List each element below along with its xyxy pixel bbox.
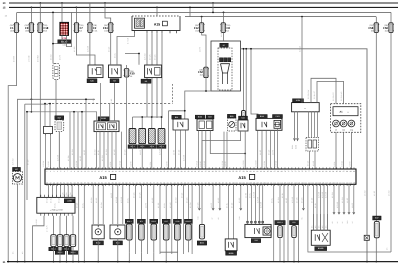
svg-text:F18: F18 [44, 26, 49, 30]
ECU pin ticks [46, 167, 355, 186]
module A15A box [292, 103, 320, 112]
wire line C [25, 103, 48, 105]
sensor B2 dashed pill [53, 64, 60, 80]
svg-text:A15B: A15B [67, 199, 72, 202]
svg-text:0.5 GE: 0.5 GE [76, 202, 79, 208]
svg-text:B13B: B13B [101, 117, 106, 120]
wire K6 out 1 [146, 78, 148, 117]
module B140 box [256, 118, 282, 130]
wire ECU bottom feed x52 [52, 184, 54, 197]
svg-text:B140: B140 [260, 115, 264, 118]
svg-text:0.5 BL: 0.5 BL [163, 203, 166, 208]
svg-text:0.5 BL: 0.5 BL [114, 53, 117, 58]
svg-text:0.5 GN: 0.5 GN [341, 160, 344, 166]
wire right column F58 down [375, 32, 377, 261]
wire pump M7 down [17, 184, 19, 262]
svg-text:0.5 BL: 0.5 BL [81, 203, 84, 208]
injector pill B16-1 [51, 235, 56, 247]
svg-text:K7: K7 [223, 44, 225, 47]
wire B343B pin 2 [316, 214, 318, 230]
svg-text:B36: B36 [175, 116, 178, 119]
injector pill B16-2 [57, 235, 62, 247]
wire right column F56 down [390, 32, 392, 252]
svg-text:F1: F1 [10, 26, 14, 30]
svg-text:0.75 BR: 0.75 BR [256, 196, 259, 203]
svg-text:0.75 BR: 0.75 BR [260, 201, 263, 208]
svg-text:0.5 SW: 0.5 SW [101, 155, 104, 161]
wire B64 ground [117, 239, 119, 262]
wire A15B to B16-2 [59, 216, 61, 235]
svg-text:0.5 GR: 0.5 GR [73, 46, 76, 52]
wire B16-3 to ground bus [66, 247, 68, 262]
junction on bus 15 at x157 [156, 7, 158, 9]
solenoid Y101 box [274, 120, 281, 128]
junction sub-feed x213 [212, 12, 214, 14]
glow plug Y62-2 label box [138, 145, 147, 149]
svg-text:2.5 SW: 2.5 SW [364, 190, 367, 196]
wire K75 to sensor B2 [53, 35, 62, 43]
wire bus to sensor B2 [52, 12, 54, 63]
relay K20 contacts [92, 68, 98, 74]
junction big loop B43 [243, 48, 245, 50]
svg-text:0.5 GN-RT: 0.5 GN-RT [332, 91, 335, 101]
wire ECU bottom feed x141 [140, 184, 142, 219]
wire bus3 to fuse F1 [16, 12, 18, 22]
junction ground x8 [7, 261, 9, 263]
svg-text:0.5 GE: 0.5 GE [199, 160, 202, 166]
svg-text:0.5 SW: 0.5 SW [331, 192, 334, 198]
svg-text:1.5 GN: 1.5 GN [27, 55, 30, 62]
svg-text:B71: B71 [140, 220, 143, 223]
wire B71 down [140, 240, 142, 252]
relay K9 box [109, 65, 122, 78]
wire bus30 tap to sub-feed [212, 3, 214, 12]
svg-text:0.5 SW: 0.5 SW [71, 149, 74, 155]
wire ECU bottom feed x64 [63, 184, 65, 197]
svg-text:2.5 SW: 2.5 SW [36, 55, 39, 62]
wire loop right of K75 [67, 12, 72, 46]
wire bus15 to fuse F9 [30, 7, 32, 22]
wire A15 pin drop 2 [151, 33, 153, 64]
wire A15 pin drop 4 [161, 33, 163, 118]
wire ECU bottom feed x135 [134, 184, 136, 254]
wire ECU top feed x142 [141, 144, 143, 169]
svg-text:B47: B47 [375, 217, 378, 220]
wire dashed tap b [49, 104, 51, 127]
relay K32 symbol [241, 123, 245, 128]
wire F52 down [205, 78, 207, 91]
svg-text:1.0 RT: 1.0 RT [198, 47, 201, 52]
svg-text:B50: B50 [230, 115, 233, 118]
svg-text:0.5 BL: 0.5 BL [271, 198, 274, 203]
sensor B47 label box [373, 216, 382, 220]
svg-text:1.0 RT: 1.0 RT [259, 150, 262, 155]
wire ECU top feed x180 [180, 131, 182, 170]
junction pump feed [85, 98, 87, 100]
svg-text:A15: A15 [238, 175, 246, 180]
wire B50 out 2 [226, 132, 228, 169]
injector pill B16-3 [64, 235, 69, 247]
wire line B drop [26, 112, 28, 200]
svg-text:0.5 WS: 0.5 WS [149, 54, 152, 60]
svg-text:A15A: A15A [296, 99, 301, 102]
wire ECU bottom feed x324 [323, 184, 325, 230]
wire B16-2 to ground bus [59, 247, 61, 262]
wire ECU bottom feed x251 [250, 184, 252, 224]
wire K9 pin2 [116, 44, 118, 65]
wire ECU bottom feed x160 [159, 184, 161, 254]
sensor B43 pill [242, 111, 246, 118]
junction right col2 ground [375, 261, 377, 263]
svg-text:B353-1: B353-1 [277, 221, 283, 224]
svg-text:0.5 GE: 0.5 GE [178, 149, 181, 155]
junction on bus 15 at x76 [76, 7, 78, 9]
module B343B box [311, 230, 330, 245]
fuse F9 label [25, 24, 29, 32]
fuse F18 [37, 23, 43, 33]
svg-text:1.0 RT: 1.0 RT [245, 193, 248, 198]
svg-text:0.5 BL: 0.5 BL [333, 162, 336, 167]
bus sub-feed from terminal 30 [17, 11, 391, 13]
wire A15A to cluster loop 1 [311, 78, 336, 103]
svg-text:0.5 SW-WS: 0.5 SW-WS [340, 91, 343, 101]
svg-text:1.5 SW: 1.5 SW [388, 190, 391, 196]
Y94 feed pads [247, 221, 249, 223]
fuse F52 label [198, 69, 203, 77]
module A15 pins [135, 31, 177, 34]
wire Y130 down [176, 240, 178, 252]
wire ECU bottom feed x220 [219, 184, 221, 210]
svg-text:F7: F7 [80, 26, 84, 30]
svg-text:0.5 BL: 0.5 BL [226, 203, 229, 208]
sensor B34-1 label box [125, 219, 133, 223]
junction on bus 30 at x62 [61, 2, 63, 4]
svg-text:B35B: B35B [229, 252, 234, 255]
svg-text:B27: B27 [58, 116, 61, 119]
wire end arrow x303 [302, 208, 304, 210]
wire ECU bottom feed x123 [122, 184, 124, 224]
wire end arrow x199 [198, 208, 200, 210]
wire ECU bottom feed x68 [67, 184, 69, 197]
svg-text:0.5 GE: 0.5 GE [95, 197, 98, 203]
wire ECU bottom feed x79 [78, 184, 80, 261]
wire ECU top feed x59 [58, 132, 60, 169]
wire A15 pin drop 1 [146, 33, 148, 64]
svg-text:0.75 BR: 0.75 BR [183, 154, 186, 161]
fuse F56 [388, 23, 394, 33]
svg-text:F12: F12 [194, 26, 199, 30]
module B166 box [197, 119, 213, 131]
junction B70 ground [293, 261, 295, 263]
wire A15B to B16-1 [53, 216, 55, 235]
junction pump h2 [184, 110, 186, 112]
wire ECU top feed x152 [151, 144, 153, 169]
wire ECU bottom feed x213 [212, 184, 214, 210]
module Y94 box [245, 224, 271, 237]
wire B50 out 1 [223, 132, 225, 169]
sensor B27 dashed pill [55, 120, 64, 132]
solenoid Y101 symbol [276, 122, 280, 126]
wire B166 join [210, 131, 245, 154]
svg-text:A15: A15 [99, 175, 107, 180]
module B13B box [94, 121, 119, 132]
wire B142 ground [97, 239, 99, 262]
wire B343B pin 4 [323, 214, 325, 230]
wire F30 up [126, 65, 128, 69]
injector B16-2 label box [55, 251, 64, 255]
sensor B343-1 label box [197, 241, 207, 245]
wire ECU top feed x122 [121, 132, 123, 169]
svg-text:K9: K9 [113, 80, 115, 83]
fuse F7 [74, 23, 80, 33]
svg-text:4-32: 4-32 [62, 44, 66, 47]
coil B64 box [110, 225, 125, 239]
svg-text:F56: F56 [383, 26, 388, 30]
svg-text:0.5 GE: 0.5 GE [180, 192, 183, 198]
wire big loop (terminal feed) [241, 49, 368, 262]
gauge lamp 2 [340, 120, 347, 127]
wire sub-feed to fuse F56 [390, 12, 392, 22]
wire A15 pin1 bundle [117, 33, 135, 44]
svg-text:B343: B343 [200, 242, 204, 245]
sensor B27 label box [55, 116, 64, 120]
junction K6 feed [138, 53, 140, 55]
wire B71 ground [140, 252, 142, 261]
junction on bus 30 at x105 [104, 2, 106, 4]
sensor B353-1 label box [275, 221, 286, 225]
coil B142 pin [97, 225, 99, 227]
wire bus15 to A15 region [156, 7, 158, 16]
sensor B71 label box [137, 219, 145, 223]
svg-text:K20: K20 [90, 80, 93, 83]
fuse F52 [203, 67, 209, 77]
svg-text:F58: F58 [368, 26, 373, 30]
svg-text:0.5 RT: 0.5 RT [59, 55, 62, 60]
sensor B47 pill [374, 221, 379, 237]
svg-text:0.5 BL: 0.5 BL [314, 203, 317, 208]
svg-text:0.5 BL: 0.5 BL [149, 162, 152, 167]
wire ECU top feed x202 [201, 131, 203, 170]
wire ECU bottom feed x288 [287, 184, 289, 261]
glow plug Y62-1 label box [128, 145, 137, 149]
wire dashed tap to B13B [109, 104, 111, 121]
wire ECU bottom feed x334 [333, 184, 335, 214]
wire big loop tap K32 pin2 [245, 49, 247, 120]
wire ECU top feed x104 [103, 132, 105, 169]
wire B343-2 down [187, 240, 189, 252]
pump M3 leads [222, 73, 224, 84]
svg-text:0.5 GE: 0.5 GE [217, 197, 220, 203]
pump M7 M glyph [16, 176, 19, 179]
wire ECU bottom feed x93 [92, 184, 94, 224]
svg-text:0.5 SW: 0.5 SW [50, 54, 53, 60]
svg-text:0.5 GN: 0.5 GN [185, 197, 188, 203]
ground bus 31 [7, 261, 398, 263]
fuse F56 label [383, 24, 388, 32]
wire ECU to F56 return [308, 184, 391, 252]
junction line C ground [24, 261, 26, 263]
fuse F34 label [103, 24, 108, 32]
svg-text:1.0 RT: 1.0 RT [351, 203, 354, 208]
sensor B34-1 pill [127, 224, 133, 240]
junction B16-3 ground [66, 261, 68, 263]
wire ECU bottom feed x192 [191, 184, 193, 254]
wire ECU top feed x199 [198, 131, 200, 170]
pump module K7 label box [220, 43, 229, 47]
wire pump M3 out [185, 91, 223, 119]
wire B34-2 down [153, 240, 155, 252]
bus sub-feed 2 [185, 16, 376, 18]
injector Y62-4 [158, 129, 165, 144]
sensor B70 label box [290, 221, 299, 225]
wire F2 to K20 [89, 32, 91, 65]
svg-text:0.5 SW: 0.5 SW [196, 161, 199, 167]
relay K6 label box [141, 79, 151, 83]
sensor B34-2 label box [150, 219, 158, 223]
wire sub-feed2 to fuse F12 [201, 17, 203, 23]
wire ECU bottom feed x241 [240, 184, 242, 210]
relay B36 symbol [178, 122, 183, 127]
wire bus30 to relay K75 [61, 3, 63, 22]
svg-text:0.5 GN-SW: 0.5 GN-SW [307, 90, 310, 99]
svg-text:Y101: Y101 [275, 115, 279, 118]
relay K6 box [145, 65, 162, 78]
sensor B50 dashed box [228, 118, 237, 131]
option dashed vertical [172, 84, 174, 104]
injector B16-1 label box [49, 247, 59, 251]
wire ECU bottom feed x320 [320, 184, 322, 230]
wire B34-2 ground [153, 252, 155, 261]
junction on sub-feed2 at x201 [201, 16, 203, 18]
wire to injector Y62-2 [141, 117, 143, 129]
svg-text:0.5 SW: 0.5 SW [189, 202, 192, 208]
svg-text:0.5 GN: 0.5 GN [67, 155, 70, 161]
wire A15A to sensor B18 3 [314, 112, 316, 138]
module A15 inner relay cells [136, 20, 139, 27]
pump M7 circle [13, 174, 21, 182]
wire ECU top feed x97 [96, 132, 98, 169]
pump M3 connector bars [220, 58, 231, 62]
wire ECU bottom feed x328 [327, 184, 329, 230]
module A15 inner relay [135, 18, 145, 28]
svg-text:0.75 BR: 0.75 BR [242, 160, 245, 167]
option dashed line [48, 103, 173, 105]
junction B166-K32 [244, 153, 246, 155]
svg-text:K6: K6 [145, 80, 147, 83]
cluster A1 dashed box [331, 104, 361, 133]
module B140 relay symbol [262, 122, 267, 127]
fuse F1 label [10, 24, 14, 32]
junction B64 ground [117, 261, 119, 263]
wire ECU top feed x108 [107, 132, 109, 169]
sensor B70 pill [292, 226, 297, 238]
fuse F30 label [130, 70, 135, 78]
svg-text:0.5 GE: 0.5 GE [306, 160, 309, 166]
svg-text:0.5 SW: 0.5 SW [75, 161, 78, 167]
svg-text:0.75 BR: 0.75 BR [255, 160, 258, 167]
svg-text:0.5 GE: 0.5 GE [267, 149, 270, 155]
wire F7 down [76, 32, 95, 65]
svg-text:B343B: B343B [318, 247, 324, 250]
svg-text:0.5 WS: 0.5 WS [296, 197, 299, 203]
svg-text:1.0 RT: 1.0 RT [139, 150, 142, 155]
wire ECU bottom feed x199 [198, 184, 200, 210]
wire K32 out to ECU [244, 131, 246, 169]
svg-text:Y94: Y94 [254, 239, 257, 242]
wire cluster down x344 [343, 132, 345, 169]
sensor Y117 label box [162, 219, 170, 223]
svg-text:B34-1: B34-1 [127, 220, 132, 223]
junction B16-2 ground [59, 261, 61, 263]
wire ECU top feed x206 [205, 131, 207, 170]
svg-text:0.75 BR: 0.75 BR [325, 191, 328, 198]
sensor B18 dashed box [306, 138, 319, 152]
fuse F8 label [227, 24, 231, 32]
sensor Y130 pill [175, 224, 181, 240]
svg-text:0.75 BR: 0.75 BR [336, 201, 339, 208]
relay K9 contacts [112, 68, 118, 74]
fuse F34 [108, 23, 114, 33]
fuse F7 label [80, 24, 84, 32]
svg-text:0.5 SW: 0.5 SW [174, 197, 177, 203]
pump M3 symbol [221, 64, 230, 73]
wire B16-1 to ground bus [53, 247, 55, 262]
sensor Y117 pill [163, 224, 169, 240]
sensor B50 label box [227, 114, 236, 118]
wire F12 jog to F52 [202, 32, 206, 67]
wire ECU bottom feed x177 [176, 184, 178, 219]
fuse F2 label [93, 24, 98, 32]
wire K9 to B13B [114, 83, 116, 121]
wire B18 out 1 [309, 151, 311, 169]
module Y94 label box [251, 239, 261, 243]
gauge lamp 1 icon [335, 122, 338, 125]
wire pump to ECU [168, 111, 170, 169]
wire ECU bottom feed x317 [316, 184, 318, 230]
wire ECU bottom feed x166 [165, 184, 167, 219]
wire B343B pin 3 [320, 214, 322, 230]
relay B36 label box [172, 115, 182, 119]
svg-text:0.5 GN: 0.5 GN [263, 160, 266, 166]
relay K20 box [88, 65, 103, 78]
svg-text:B34-2: B34-2 [151, 220, 156, 223]
svg-text:0.5 SW: 0.5 SW [94, 149, 97, 155]
svg-text:0.5 GR: 0.5 GR [27, 159, 30, 165]
svg-text:1.0 RT: 1.0 RT [173, 150, 176, 155]
svg-text:0.5 BL: 0.5 BL [126, 198, 129, 203]
svg-text:0.5 GN: 0.5 GN [196, 202, 199, 208]
wire sub-feed to fuse F8 [223, 12, 225, 22]
junction glow bracket [161, 116, 163, 118]
junction right col ground [366, 261, 368, 263]
glow plug Y62-4 label box [157, 145, 166, 149]
relay K32 label box [239, 116, 248, 120]
junction big loop K32 [250, 48, 252, 50]
svg-text:1.5: 1.5 [386, 248, 389, 250]
wire ECU bottom feed x344 [343, 184, 345, 214]
wire K6 out 2 [151, 78, 153, 117]
wire B16-4 to ground bus [72, 247, 74, 262]
wire ECU bottom feed x98 [97, 184, 99, 224]
svg-text:4 × 0.75: 4 × 0.75 [46, 225, 49, 232]
svg-text:0.5 WS: 0.5 WS [203, 160, 206, 166]
junction B16-4 ground [72, 261, 74, 263]
wire A15B left pin down [33, 216, 44, 262]
wire B34-1 ground [128, 252, 130, 261]
connector bar bottom [160, 251, 178, 253]
svg-text:0.5 GE: 0.5 GE [311, 197, 314, 203]
wire Y117 down [165, 240, 167, 252]
